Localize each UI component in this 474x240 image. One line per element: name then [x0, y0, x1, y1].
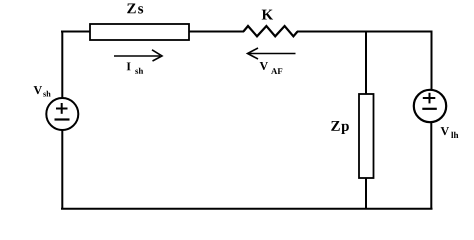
label Zp [331, 121, 349, 134]
voltage arrow V_AF [248, 48, 296, 59]
impedance box Zp [359, 94, 374, 178]
current arrow I_sh [114, 50, 162, 61]
label V_lh [441, 127, 449, 135]
plus sign of V_lh [423, 93, 436, 104]
plus sign of V_sh [56, 103, 68, 114]
minus sign of V_sh [55, 118, 70, 120]
minus sign of V_lh [422, 108, 437, 110]
wire top-left horizontal [61, 31, 91, 33]
voltage source V_sh [46, 98, 78, 130]
label V_AF [260, 62, 268, 70]
label K [262, 10, 273, 20]
wire right vertical upper [431, 31, 433, 90]
wire K to top-right corner [297, 31, 433, 33]
resistor K [243, 26, 297, 36]
voltage source V_lh [414, 90, 446, 122]
wire left vertical lower [61, 130, 63, 210]
wire Zp lower branch [365, 178, 367, 210]
wire right vertical lower [430, 122, 432, 210]
label I_sh [127, 62, 131, 70]
label V_sh [34, 86, 42, 94]
wire bottom horizontal [61, 208, 433, 210]
wire between Zs and K [189, 31, 244, 33]
label Zs [127, 3, 143, 13]
wire left vertical upper [61, 31, 63, 99]
wire Zp upper branch [365, 31, 367, 96]
impedance box Zs [90, 24, 189, 40]
